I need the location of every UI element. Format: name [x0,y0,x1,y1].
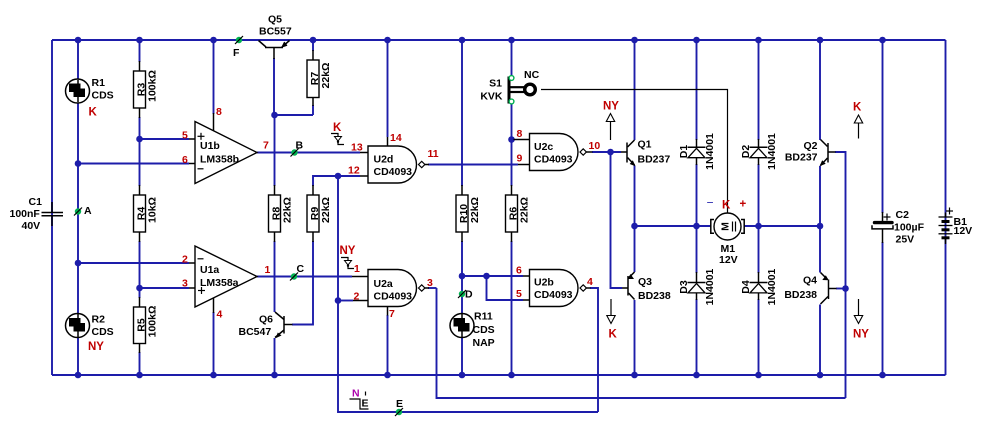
wire D2/D4 column (x=758.5) [758,40,760,375]
wire motor rail right [744,225,820,227]
svg-text:C1: C1 [29,196,43,208]
svg-text:M: M [720,222,732,231]
svg-text:10: 10 [589,140,601,152]
wire Q2/Q4 column (x=820) [819,40,821,375]
svg-text:CDS: CDS [92,90,114,102]
wire Q1 node down to Q3 base [611,152,623,288]
resistor R9 [307,185,332,242]
wire bottom ground bus [52,374,946,376]
transistor Q2 (BD237 mirrored) [785,140,836,167]
svg-text:12: 12 [348,165,360,177]
svg-text:22kΩ: 22kΩ [320,63,332,89]
svg-text:R2: R2 [92,314,106,326]
transistor Q6 (BC547) [239,312,293,338]
transistor Q5 (BC557) [259,14,292,60]
wire node B (U1b.7 to U2d.13) [257,152,360,154]
node E marker [395,398,403,416]
wire Q1 emitter to motor rail [634,166,636,227]
wire Q3 collector from rail [634,226,636,272]
svg-text:6: 6 [182,154,188,166]
svg-text:7: 7 [389,308,395,320]
svg-text:CDS: CDS [473,324,495,336]
svg-text:F: F [233,47,240,59]
svg-text:3: 3 [427,277,433,289]
svg-text:U2b: U2b [534,277,554,289]
svg-text:BD238: BD238 [784,289,817,301]
svg-text:1: 1 [354,263,360,275]
svg-text:E: E [396,398,403,410]
transistor Q3 (BD238) [622,272,671,302]
svg-text:U1b: U1b [200,140,220,152]
svg-text:12V: 12V [954,225,973,237]
resistor R3 [134,61,159,118]
svg-text:D: D [465,289,473,301]
transistor Q4 (BD238 mirrored) [784,273,836,305]
svg-text:100kΩ: 100kΩ [147,70,159,102]
wire Q4 base stub [836,288,846,290]
svg-text:−: − [707,196,714,210]
wire Q2 base to right riser [835,152,846,398]
svg-text:Q4: Q4 [803,275,817,287]
wire U2b output to lower rail [590,288,598,412]
svg-text:Q1: Q1 [638,139,652,151]
svg-text:3: 3 [182,278,188,290]
diode D2 (1N4001) [740,133,778,170]
svg-text:KVK: KVK [480,91,503,103]
wire net column x=338 (U2d.12/U2a.2 rail riser) [338,176,598,412]
resistor R2 (CDS photocell) [66,314,114,354]
svg-text:CDS: CDS [92,326,114,338]
svg-text:C: C [297,263,305,275]
svg-text:BD238: BD238 [638,290,671,302]
svg-text:R1: R1 [92,77,106,89]
nand gate U2d (CD4093) [348,132,439,183]
svg-text:22kΩ: 22kΩ [320,197,332,223]
wire U2d pin14 riser [387,40,389,137]
resistor R5 [134,297,159,353]
svg-text:2: 2 [182,254,188,266]
svg-text:NAP: NAP [473,337,495,349]
wire U1b pin5 branch [140,138,190,140]
wire U1a pin2 branch [78,262,189,264]
svg-text:5: 5 [182,130,188,142]
wire Q3 emitter drop [634,300,636,375]
wire C2 column (x=882.5) [882,40,884,375]
svg-text:1N4001: 1N4001 [704,268,716,305]
svg-text:LM358b: LM358b [200,154,239,166]
svg-text:B: B [296,140,304,152]
wire U2a pin7 drop [387,315,389,375]
svg-text:U2a: U2a [374,278,393,290]
svg-text:K: K [609,329,618,341]
svg-text:1N4001: 1N4001 [704,133,716,170]
wire U2a output stub [428,287,437,289]
wire R8/Q6 column (x=274.5) [274,115,276,375]
svg-text:4: 4 [587,276,593,288]
wire lower rail y=398 (U2a.3 to Q2/Q4 base) [437,288,846,398]
svg-text:D4: D4 [740,280,752,294]
wire U2a pin2 stub [338,300,353,302]
svg-text:BD237: BD237 [638,154,671,166]
svg-text:LM358a: LM358a [200,277,239,289]
svg-text:NY: NY [340,245,356,257]
net flag K down-arrow at Q3 [607,299,618,341]
op-amp U1a [182,246,271,321]
wire Q1 collector riser [634,40,636,140]
svg-text:NY: NY [853,329,869,341]
nand gate U2b (CD4093) [516,265,593,307]
svg-text:BC547: BC547 [239,326,272,338]
svg-text:5: 5 [516,288,522,300]
svg-text:10kΩ: 10kΩ [147,197,159,223]
svg-text:C2: C2 [896,209,910,221]
diode D4 (1N4001) [740,268,778,305]
svg-text:NY: NY [88,341,104,353]
svg-text:CD4093: CD4093 [374,166,413,178]
svg-text:D1: D1 [678,145,690,159]
svg-text:12V: 12V [719,254,738,266]
svg-text:22kΩ: 22kΩ [469,197,481,223]
svg-text:A: A [84,205,92,217]
svg-text:22kΩ: 22kΩ [519,197,531,223]
svg-text:8: 8 [517,128,523,140]
resistor R8 [269,185,294,242]
wire U2d.11 to U2c.9 [428,164,518,166]
resistor R6 [506,185,531,242]
capacitor C2 (electrolytic) [872,209,925,246]
svg-text:9: 9 [517,153,523,165]
svg-text:K: K [333,122,342,134]
node A marker [74,205,92,217]
wire U2c.10 to Q1 base [592,151,621,153]
svg-text:E: E [362,398,369,410]
node F marker [233,36,243,59]
svg-text:K: K [722,200,731,212]
svg-text:Q3: Q3 [638,276,652,288]
svg-text:4: 4 [217,309,223,321]
op-amp U1b [182,106,269,184]
switch S1 (KVK) with NC wire [480,69,539,104]
wire left frame [51,40,53,375]
svg-text:U1a: U1a [200,264,219,276]
net flag N earth symbol at lower rail [350,388,369,410]
svg-text:Q6: Q6 [259,314,273,326]
wire D1/D3 column (x=696.5) [696,40,698,375]
svg-text:+: + [740,199,747,211]
wire column R1/R2 (x=78) [77,40,79,375]
wire U2d pin12 to R9 [313,176,360,186]
wire R7 top stub [312,40,314,51]
svg-text:U2c: U2c [534,141,553,153]
svg-text:D3: D3 [678,280,690,294]
wire right frame (battery column) [945,40,947,375]
wire U2b pin5 branch [487,276,524,300]
svg-text:S1: S1 [489,78,502,90]
wire top supply bus [52,39,946,41]
wire R7 bottom riser [312,105,314,115]
wire U1b pin6 branch [78,163,189,165]
svg-text:NC: NC [524,69,540,81]
svg-text:D2: D2 [740,145,752,159]
wire U1a pin3 branch [140,287,190,289]
svg-text:100µF: 100µF [894,222,925,234]
svg-text:K: K [89,107,98,119]
svg-text:100kΩ: 100kΩ [147,306,159,338]
node B marker [291,140,304,157]
svg-text:8: 8 [216,106,222,118]
wire Q5 base to node (x=272.5) [273,58,275,115]
svg-text:1: 1 [265,264,271,276]
svg-text:NY: NY [603,101,619,113]
svg-text:Q2: Q2 [803,140,817,152]
svg-text:BC557: BC557 [259,26,292,38]
svg-text:13: 13 [351,142,363,154]
net flag NY up-arrow at Q1 [603,101,619,141]
diode D3 (1N4001) [678,268,716,305]
svg-text:K: K [853,102,862,114]
wire node C (U1a.1 to U2a.1) [257,276,352,278]
motor M1 [707,196,747,267]
svg-text:N: N [352,388,360,400]
net flag NY down-arrow at Q4 [853,299,869,341]
nand gate U2a (CD4093) [352,263,433,320]
svg-text:BD237: BD237 [785,152,818,164]
resistor R4 [134,185,159,242]
node D marker [458,289,473,301]
wire R10/R11 column (x=462) [461,40,463,375]
svg-text:CD4093: CD4093 [374,291,413,303]
svg-text:2: 2 [354,291,360,303]
wire U1 supply column (x=213.5) [213,40,215,375]
diode D1 (1N4001) [678,133,716,170]
svg-text:7: 7 [263,140,269,152]
svg-text:CD4093: CD4093 [534,154,573,166]
svg-text:R11: R11 [474,311,493,323]
svg-text:1N4001: 1N4001 [766,133,778,170]
resistor R11 (CDS photocell NAP) [450,311,495,350]
wire NC run to motor top [541,90,728,214]
svg-text:Q5: Q5 [268,14,282,26]
net flag NY at U2a pin1 [340,245,356,269]
nand gate U2c (CD4093) [514,128,601,171]
transistor Q1 (BD237) [621,139,670,167]
resistor R1 (CDS photocell) [66,77,114,119]
svg-text:22kΩ: 22kΩ [282,197,294,223]
node C marker [290,263,305,281]
svg-text:U2d: U2d [374,154,394,166]
resistor R7 [307,50,332,106]
wire node115 horizontal [274,114,313,116]
net flag K at U2d pin13 [331,122,344,145]
svg-text:1N4001: 1N4001 [766,268,778,305]
svg-text:11: 11 [428,148,439,160]
wire motor rail left [635,225,712,227]
net flag K up-arrow at Q2 [853,102,863,139]
wire column R3/R4/R5 (x=139.5) [139,40,141,375]
svg-text:6: 6 [516,265,522,277]
svg-text:CD4093: CD4093 [534,289,573,301]
svg-text:14: 14 [390,132,402,144]
wire R9 bottom to Q6 base [292,241,313,325]
svg-text:25V: 25V [896,234,915,246]
wire S1/R6 column (x=511.5) [511,40,513,375]
resistor R10 [456,185,481,242]
wire node D to U2b pin6 [462,275,523,277]
svg-text:100nF: 100nF [10,208,41,220]
svg-text:40V: 40V [22,220,41,232]
battery B1 [939,208,973,245]
capacitor C1 [10,196,64,232]
